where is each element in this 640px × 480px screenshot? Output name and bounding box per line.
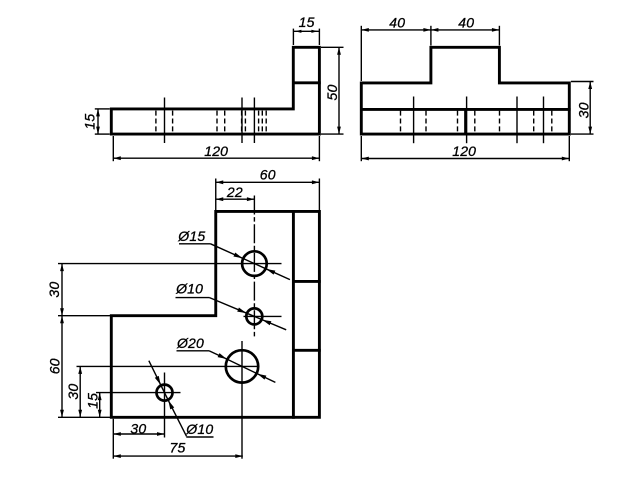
svg-text:30: 30 bbox=[46, 282, 62, 298]
svg-text:15: 15 bbox=[84, 393, 100, 409]
svg-text:30: 30 bbox=[130, 420, 146, 436]
svg-text:Ø10: Ø10 bbox=[175, 280, 203, 296]
svg-text:120: 120 bbox=[204, 143, 228, 159]
svg-text:Ø10: Ø10 bbox=[185, 421, 213, 437]
svg-text:30: 30 bbox=[65, 384, 81, 400]
svg-text:75: 75 bbox=[170, 440, 186, 456]
svg-text:Ø15: Ø15 bbox=[177, 228, 205, 244]
svg-text:15: 15 bbox=[299, 14, 315, 30]
svg-text:15: 15 bbox=[82, 114, 98, 130]
svg-text:40: 40 bbox=[458, 14, 474, 30]
svg-text:60: 60 bbox=[260, 167, 276, 183]
svg-text:Ø20: Ø20 bbox=[176, 335, 204, 351]
svg-text:60: 60 bbox=[47, 358, 63, 374]
svg-text:22: 22 bbox=[226, 184, 243, 200]
svg-text:50: 50 bbox=[324, 85, 340, 101]
svg-text:120: 120 bbox=[452, 143, 476, 159]
svg-text:40: 40 bbox=[389, 14, 405, 30]
svg-text:30: 30 bbox=[576, 102, 592, 118]
